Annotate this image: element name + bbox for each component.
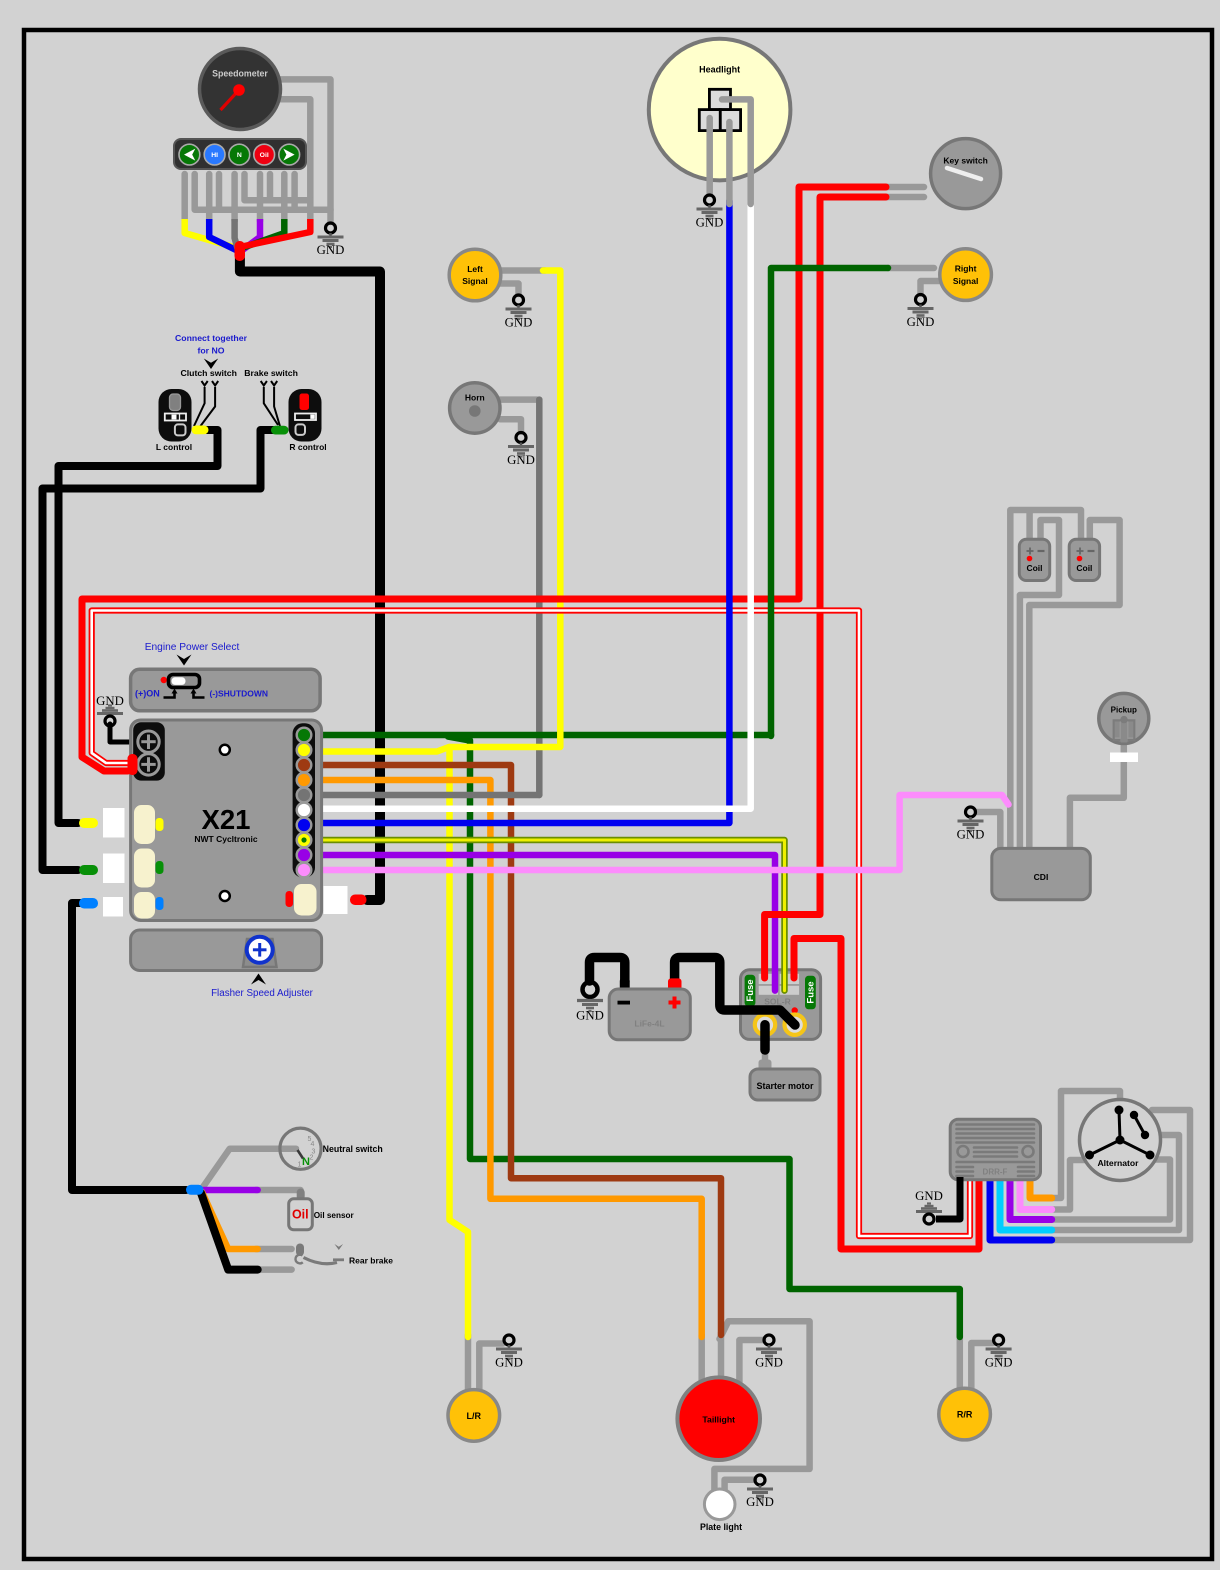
wire brown brake light from X21 to taillight	[322, 765, 721, 1335]
engine power select box	[131, 669, 321, 711]
svg-text:Neutral switch: Neutral switch	[323, 1144, 383, 1154]
svg-text:GND: GND	[696, 216, 724, 230]
wire oil sensor pigtail	[256, 1190, 301, 1196]
connector white plug power row	[324, 886, 348, 914]
rear light R/R	[939, 1388, 991, 1440]
wire pink kill X21 to CDI	[322, 795, 1009, 870]
svg-text:GND: GND	[507, 453, 535, 467]
wire battery minus to GND	[590, 958, 625, 983]
wire R/R ground	[971, 1343, 993, 1392]
wire speedometer harness main	[240, 258, 380, 900]
wire L control to X21 yellow input	[59, 430, 218, 823]
svg-text:Signal: Signal	[462, 276, 488, 286]
svg-text:Pickup: Pickup	[1111, 706, 1137, 715]
connector X21 green tab	[156, 861, 164, 874]
connector white plug green row	[103, 854, 125, 884]
svg-text:Clutch switch: Clutch switch	[180, 368, 236, 378]
svg-text:L/R: L/R	[467, 1411, 482, 1421]
wire red main power X21 to key switch	[82, 187, 886, 771]
ignition coil 2	[1069, 539, 1099, 580]
wire headlight high beam pigtail	[722, 99, 751, 204]
wire coil plus rail	[1010, 510, 1081, 848]
svg-text:GND: GND	[907, 315, 935, 329]
connector yellow wire end	[79, 818, 98, 828]
svg-text:Alternator: Alternator	[1097, 1158, 1139, 1168]
wire neutral switch pigtail	[203, 1149, 296, 1187]
wire LED panel ground bus	[195, 174, 331, 210]
svg-text:Rear brake: Rear brake	[349, 1256, 393, 1266]
connector X21 yellow tab	[156, 818, 164, 831]
connector engine sensor blue plug	[186, 1185, 204, 1195]
wire speedo harness green lead	[244, 219, 285, 248]
ground right signal GND	[907, 295, 935, 330]
wire speedometer to GND	[277, 79, 331, 222]
wire left signal feed pigtail	[499, 267, 545, 274]
svg-text:R/R: R/R	[957, 1410, 973, 1420]
svg-text:Oil: Oil	[260, 152, 269, 159]
wire alternator field gray (from DRR-F pink)	[1048, 1160, 1087, 1210]
wire red/white charge X21 to DRR-F base	[92, 611, 970, 1237]
connector L control yellow	[192, 426, 209, 435]
ground taillight GND	[755, 1335, 783, 1370]
svg-text:HI: HI	[211, 152, 218, 159]
rear brake switch	[295, 1244, 344, 1264]
wire speedometer power	[280, 99, 310, 221]
wire speedo harness yellow lead	[185, 219, 235, 248]
wire L/R ground	[479, 1344, 503, 1393]
svg-text:Signal: Signal	[953, 276, 979, 286]
wire horn ground	[500, 419, 521, 431]
wire blue low beam X21 to headlight	[322, 201, 729, 823]
wire speedo harness gray lead	[235, 219, 239, 252]
svg-text:SOL-R: SOL-R	[764, 997, 790, 1007]
svg-text:NWT Cycltronic: NWT Cycltronic	[194, 834, 258, 844]
annotation connect together for NO	[175, 333, 298, 378]
wire DRR-F black ground lead	[936, 1177, 960, 1219]
connector R control green	[271, 426, 289, 435]
connector white plug blue row	[103, 897, 123, 917]
wire alternator top gray (from DRR-F orange)	[1048, 1091, 1120, 1198]
R control	[289, 389, 327, 452]
svg-text:Right: Right	[955, 264, 977, 274]
ground speedometer GND	[317, 223, 345, 257]
svg-text:GND: GND	[746, 1495, 774, 1509]
wire taillight run pigtail	[698, 1335, 705, 1381]
connector blue wire end	[79, 898, 98, 909]
wire taillight ground	[739, 1340, 763, 1382]
wire X21 blue input to engine sensors	[72, 903, 186, 1190]
connector X21 bottom-right cream block	[294, 884, 317, 916]
wire DRR-F pink field	[1020, 1177, 1052, 1210]
flasher adjuster box	[131, 930, 322, 971]
svg-text:L control: L control	[156, 442, 192, 452]
solenoid relay SOL-R	[741, 970, 821, 1040]
wire yellow turn left from X21 to Left Signal	[322, 271, 560, 752]
wire key switch pigtail 2	[886, 194, 924, 201]
svg-text:4: 4	[311, 1141, 315, 1148]
ground left signal GND	[505, 295, 533, 330]
connector white plug yellow row	[103, 808, 125, 838]
svg-text:Brake switch: Brake switch	[244, 368, 298, 378]
connector X21 bottom-right red tab	[286, 891, 294, 907]
wire right signal feed pigtail	[888, 265, 934, 272]
svg-text:Fuse: Fuse	[745, 979, 756, 1001]
plate light	[700, 1489, 742, 1532]
ground L/R GND	[495, 1335, 523, 1370]
wire alternator phase3 gray (from DRR-F purple)	[1048, 1160, 1170, 1220]
wire horn signal (gray) vertical	[536, 400, 543, 795]
connector X21 blue tab	[156, 897, 164, 910]
wire speedo harness red lead	[245, 219, 311, 246]
wire yellow branch to L/R	[450, 747, 469, 1337]
CDI unit	[992, 848, 1091, 899]
svg-text:Key switch: Key switch	[943, 156, 987, 166]
wire L/R feed pigtail	[465, 1335, 472, 1392]
svg-text:Starter motor: Starter motor	[756, 1081, 814, 1091]
wire DRR-F blue phase	[990, 1177, 1052, 1240]
svg-text:GND: GND	[317, 243, 345, 257]
svg-text:GND: GND	[957, 828, 985, 842]
svg-text:GND: GND	[505, 316, 533, 330]
oil sensor	[289, 1189, 313, 1230]
svg-text:GND: GND	[915, 1189, 943, 1203]
clutch switch wires	[194, 381, 218, 430]
wire left signal ground	[495, 284, 519, 295]
ground X21 GND	[96, 694, 124, 726]
wire rear brake orange	[202, 1192, 258, 1249]
wire starter motor pigtail cap	[762, 1050, 769, 1062]
neutral switch	[280, 1128, 321, 1169]
wire orange running light from X21 to taillight	[322, 780, 702, 1337]
wire pickup to CDI	[1070, 741, 1124, 848]
wire taillight to plate light	[714, 1321, 809, 1490]
svg-text:Oil: Oil	[292, 1208, 309, 1222]
annotation flasher speed adjuster	[251, 974, 266, 985]
wire R/R feed pigtail	[957, 1335, 964, 1392]
wire alternator phase1 gray (from DRR-F blue)	[1048, 1110, 1190, 1240]
svg-text:Headlight: Headlight	[699, 65, 740, 75]
wire plate light ground	[725, 1480, 754, 1490]
svg-text:Coil: Coil	[1076, 563, 1092, 573]
wire gray neutral/horn from X21	[322, 792, 539, 799]
svg-text:CDI: CDI	[1034, 872, 1049, 882]
wire purple from X21 to SOL-R	[322, 855, 775, 991]
svg-text:DRR-F: DRR-F	[983, 1168, 1008, 1177]
svg-text:(+)ON: (+)ON	[135, 689, 160, 699]
svg-text:(-)SHUTDOWN: (-)SHUTDOWN	[210, 689, 269, 699]
wire red SOL-R to DRR-F	[794, 939, 979, 1250]
left signal	[449, 249, 501, 301]
svg-text:Connect together: Connect together	[175, 333, 248, 343]
svg-text:GND: GND	[985, 1356, 1013, 1370]
wire right signal ground	[921, 281, 941, 294]
wire DRR-F cyan phase	[1000, 1177, 1052, 1230]
svg-text:N: N	[237, 152, 242, 159]
wire speedo harness blue lead	[209, 219, 236, 250]
wire speedo harness purple lead	[243, 219, 261, 250]
alternator	[1080, 1100, 1161, 1181]
taillight	[677, 1377, 760, 1460]
svg-text:LiFe-4L: LiFe-4L	[634, 1019, 664, 1029]
wire R control to X21 green input	[43, 430, 274, 870]
ground headlight GND	[696, 195, 724, 230]
svg-text:Engine Power Select: Engine Power Select	[145, 642, 240, 653]
wire CDI ground	[977, 812, 1000, 848]
wire white high beam X21 to headlight	[322, 201, 751, 809]
wire headlight low beam pigtail	[726, 122, 733, 204]
L control	[156, 389, 192, 452]
ground horn GND	[507, 433, 535, 468]
X21 controller	[131, 720, 322, 921]
svg-text:Oil sensor: Oil sensor	[314, 1211, 355, 1220]
ignition coil 1	[1019, 539, 1049, 580]
wire taillight brake pigtail	[718, 1333, 725, 1381]
connector red wire end	[350, 895, 367, 906]
connector X21 red input tab	[128, 754, 138, 775]
rear light L/R	[448, 1390, 500, 1442]
svg-text:for NO: for NO	[197, 346, 224, 356]
speedometer	[200, 49, 281, 130]
wire green upper to Right Signal	[771, 268, 888, 736]
key switch	[931, 139, 1001, 209]
battery LiFe-4L	[609, 978, 690, 1039]
connector green wire end	[79, 865, 98, 875]
wire oil sensor purple	[203, 1187, 258, 1194]
wire solenoid to starter motor	[760, 1025, 770, 1050]
regulator DRR-F	[950, 1119, 1040, 1180]
ground plate light GND	[746, 1475, 774, 1509]
horn	[450, 383, 500, 433]
wire coil1 minus to CDI	[1020, 520, 1059, 848]
wire horn feed pigtail	[498, 396, 537, 403]
wire coil2 minus to CDI	[1029, 520, 1119, 848]
svg-text:Left: Left	[467, 264, 483, 274]
brake switch wires	[261, 381, 281, 428]
pickup coil	[1099, 693, 1149, 743]
connector pickup white band	[1110, 753, 1138, 763]
svg-text:2: 2	[310, 1155, 314, 1162]
wire X21 ground	[110, 724, 129, 742]
wire headlight ground	[706, 118, 713, 194]
svg-text:Speedometer: Speedometer	[212, 69, 268, 79]
wire red key switch to SOL-R	[765, 197, 886, 978]
wire battery plus to solenoid	[675, 958, 795, 1026]
svg-text:Taillight: Taillight	[702, 1415, 735, 1425]
indicator LED panel	[174, 139, 306, 169]
svg-text:GND: GND	[576, 1009, 604, 1023]
right signal	[940, 249, 992, 301]
ground CDI GND	[957, 807, 985, 842]
svg-text:1: 1	[298, 1162, 302, 1169]
wire green turn right lower from X21	[322, 732, 771, 739]
connector X21 output pins	[297, 728, 312, 878]
svg-text:R control: R control	[289, 442, 326, 452]
wire spare ground pigtail	[256, 1266, 292, 1273]
ground DRR-F GND	[915, 1189, 943, 1224]
svg-text:Fuse: Fuse	[806, 981, 817, 1003]
svg-text:GND: GND	[495, 1356, 523, 1370]
node speedo harness junction	[235, 241, 246, 261]
starter motor	[750, 1060, 820, 1101]
wire yellow-green core	[322, 840, 785, 991]
wire DRR-F purple phase	[1010, 1177, 1052, 1220]
wire LED panel signal stubs	[185, 174, 285, 221]
wire LED panel power bus	[245, 174, 311, 200]
wire alternator phase2 gray (from DRR-F cyan)	[1048, 1135, 1179, 1230]
headlight	[649, 39, 791, 181]
svg-text:Horn: Horn	[465, 393, 485, 403]
svg-text:Flasher Speed Adjuster: Flasher Speed Adjuster	[211, 988, 314, 999]
ground R/R GND	[985, 1335, 1013, 1370]
wire rear brake pigtail	[256, 1246, 292, 1253]
svg-text:GND: GND	[755, 1356, 783, 1370]
ground battery GND	[576, 982, 604, 1023]
svg-text:X21: X21	[202, 804, 251, 835]
wire green branch to R/R	[448, 737, 960, 1338]
wire yellow-green from X21 to SOL-R base	[322, 840, 785, 991]
wire red/white charge white core	[92, 611, 970, 1237]
wire spare ground at sensors	[201, 1193, 258, 1270]
wire DRR-F orange	[1030, 1177, 1052, 1198]
wire key switch pigtail 1	[886, 184, 924, 191]
connector X21 left cream blocks	[134, 805, 155, 844]
svg-text:Plate light: Plate light	[700, 1522, 742, 1532]
svg-text:Coil: Coil	[1026, 563, 1042, 573]
